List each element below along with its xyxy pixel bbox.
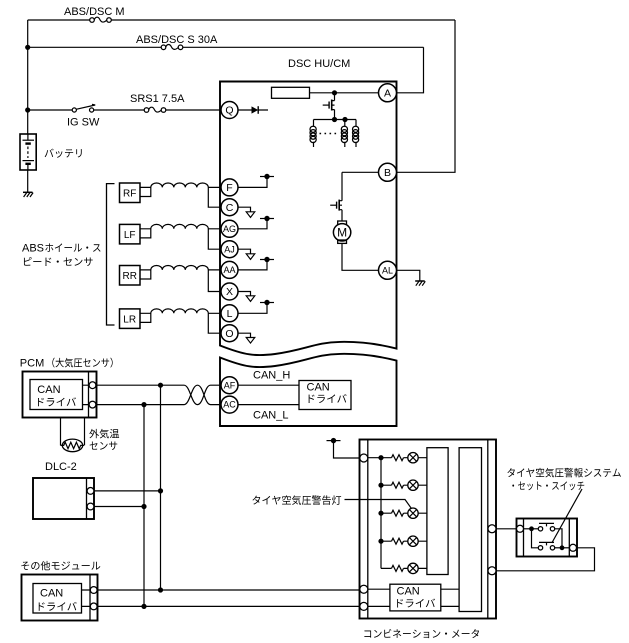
svg-text:O: O bbox=[225, 328, 233, 340]
node junction row 4 bbox=[378, 539, 383, 544]
wire upper switch output drop bbox=[555, 529, 562, 548]
diagram PCM module box bbox=[23, 372, 97, 418]
label ・セット・スイッチ bbox=[512, 481, 584, 490]
wire meter connector inner edges bbox=[368, 440, 488, 619]
diagram set switch box bbox=[517, 519, 578, 557]
node junction CAN_L bus tap bbox=[141, 402, 146, 407]
svg-text:LF: LF bbox=[124, 230, 136, 241]
pin B bbox=[379, 163, 397, 181]
wire battery positive rail (left vertical) bbox=[27, 20, 29, 134]
wire RF twisted pair to pins F/C bbox=[140, 183, 221, 207]
svg-text:IG SW: IG SW bbox=[67, 117, 100, 129]
wire switch return loop to meter bbox=[496, 548, 595, 571]
wire AL to ground bbox=[397, 270, 420, 281]
diagram other-module box bbox=[22, 575, 98, 621]
wire module connector inner edge bbox=[89, 575, 91, 621]
wire O to shield ground bbox=[238, 333, 251, 337]
svg-text:CAN: CAN bbox=[40, 588, 63, 600]
svg-text:AG: AG bbox=[223, 224, 236, 234]
node at FET drain bbox=[332, 90, 337, 95]
diode D1 bbox=[238, 106, 268, 114]
diagram meter inner block 2 bbox=[459, 448, 481, 612]
sensor RF wheel speed sensor bbox=[120, 183, 141, 203]
wire C to shield ground bbox=[238, 207, 251, 212]
node solenoid left bbox=[332, 117, 337, 122]
wire AF to CAN driver bbox=[238, 384, 299, 386]
sensor LF wheel speed sensor bbox=[120, 224, 141, 244]
ground O (arrow) bbox=[246, 338, 255, 344]
diagram meter inner block 1 bbox=[427, 448, 448, 575]
resistor lamp row 1 bbox=[392, 455, 404, 461]
pin C bbox=[221, 199, 238, 216]
wire lamp row 1 bbox=[368, 457, 427, 459]
inductor solenoid valve L2 bbox=[344, 120, 346, 148]
svg-text:DSC HU/CM: DSC HU/CM bbox=[288, 58, 350, 70]
wire CAN_H to combination meter bbox=[97, 589, 360, 591]
fuse ABS/DSC S 30A bbox=[161, 45, 183, 50]
pin X bbox=[221, 283, 238, 300]
wire lamp row 3 bbox=[381, 512, 427, 514]
switch IG SW bbox=[72, 104, 95, 112]
node L supply tap bbox=[260, 300, 274, 305]
wire to lower switch bbox=[532, 529, 539, 548]
svg-text:PCM: PCM bbox=[20, 358, 44, 370]
label タイヤ空気圧警告灯 bbox=[252, 495, 341, 505]
node meter terminal right upper bbox=[488, 525, 496, 533]
diagram module CAN driver box bbox=[33, 584, 82, 614]
op-amp: DSC HU/CM upper module box bbox=[220, 82, 397, 356]
bracket sensor group bbox=[107, 184, 115, 325]
wire switch connector inner edges bbox=[524, 519, 570, 557]
wire DLC-2 to CAN_H bus bbox=[94, 490, 161, 492]
wire meter lamp bus bbox=[380, 458, 382, 569]
node meter terminal CAN_L bbox=[360, 602, 368, 610]
ground C (arrow) bbox=[246, 212, 255, 218]
label バッテリ bbox=[45, 149, 82, 158]
pin Q bbox=[221, 102, 238, 119]
node solenoid right bbox=[342, 117, 347, 122]
label コンビネーション・メータ bbox=[364, 629, 479, 638]
svg-text:C: C bbox=[226, 202, 234, 214]
pin F bbox=[221, 179, 238, 196]
resistor lamp row 2 bbox=[392, 482, 404, 488]
diagram PCM CAN driver box bbox=[30, 380, 83, 410]
svg-text:CAN: CAN bbox=[307, 382, 330, 394]
diagram DSC lower module box (CAN section) bbox=[220, 354, 397, 426]
node meter terminal CAN_H bbox=[360, 585, 368, 593]
wire CAN_H bus vertical bbox=[160, 385, 162, 590]
wire solenoid header bbox=[314, 119, 357, 121]
svg-text:RR: RR bbox=[122, 271, 136, 282]
wire DLC-2 connector inner edge bbox=[86, 478, 88, 519]
svg-text:AJ: AJ bbox=[224, 244, 235, 254]
node junction row 2 bbox=[378, 483, 383, 488]
svg-text:LR: LR bbox=[123, 315, 136, 326]
wire PCM connector inner edge bbox=[88, 372, 90, 418]
svg-text:B: B bbox=[384, 167, 391, 179]
svg-text:L: L bbox=[227, 308, 233, 320]
resistor (pump relay coil) bbox=[272, 87, 310, 98]
motor M (ABS pump) bbox=[333, 212, 378, 271]
svg-text:AC: AC bbox=[223, 400, 236, 410]
pin AA bbox=[221, 261, 238, 278]
wire ABS/DSC S feed (second horizontal) bbox=[28, 46, 424, 48]
lamp row 2 bbox=[408, 480, 418, 490]
pin AJ bbox=[221, 241, 238, 258]
wire resistor to node bbox=[310, 92, 380, 94]
wire CAN_L to combination meter bbox=[97, 605, 360, 607]
wire pin B to motor FET bbox=[342, 171, 379, 173]
wire lower switch output bbox=[555, 547, 570, 549]
pin L bbox=[221, 305, 238, 322]
wire meter CAN_L internal bbox=[368, 605, 459, 607]
wire AJ to shield ground bbox=[238, 249, 251, 254]
node DLC-2 terminal lower bbox=[87, 503, 94, 510]
node AG supply tap bbox=[260, 216, 274, 221]
pin A bbox=[379, 84, 397, 102]
ground battery bbox=[23, 192, 33, 197]
wire CAN_L PCM to DSC (twisted) bbox=[96, 404, 221, 406]
node PCM terminal CAN_L bbox=[89, 401, 96, 408]
node junction row 1 bbox=[378, 455, 383, 460]
wire meter CAN_H internal bbox=[368, 588, 459, 590]
wire L to supply bbox=[238, 303, 267, 314]
wire CAN driver stubs to terminals bbox=[83, 385, 90, 404]
transistor Q1 (valve driver FET) bbox=[323, 93, 335, 120]
wire lamp row 5 bbox=[381, 567, 427, 569]
node PCM terminal CAN_H bbox=[89, 382, 96, 389]
wire LF twisted pair to pins AG/AJ bbox=[140, 224, 221, 249]
node junction battery rail / IG line bbox=[25, 107, 30, 112]
node meter terminal supply bbox=[360, 454, 368, 462]
wire CAN_L bus vertical bbox=[143, 405, 145, 607]
ground AL bbox=[415, 281, 425, 286]
wire twist crossover A bbox=[184, 385, 211, 404]
fuse SRS1 7.5A bbox=[144, 107, 166, 112]
lamp row 4 bbox=[408, 536, 418, 546]
svg-text:AF: AF bbox=[224, 380, 236, 390]
svg-text:RF: RF bbox=[123, 189, 136, 200]
wire switch input bbox=[524, 528, 539, 530]
wire AC to CAN driver bbox=[238, 404, 299, 406]
wire lamp row 2 bbox=[381, 484, 427, 486]
svg-text:CAN: CAN bbox=[397, 586, 420, 598]
resistor 外気温センサ thermistor bbox=[61, 439, 85, 452]
label 外気温センサ bbox=[89, 429, 119, 439]
node F supply tap bbox=[260, 174, 274, 179]
wire DLC-2 to CAN_L bus bbox=[94, 506, 144, 508]
sensor LR wheel speed sensor bbox=[120, 309, 141, 329]
diagram meter CAN driver box bbox=[390, 584, 441, 611]
node DLC-2 terminal upper bbox=[87, 488, 94, 495]
node junction CAN_H bus tap bbox=[158, 383, 163, 388]
wire AA to supply bbox=[238, 260, 267, 270]
lamp row 5 bbox=[408, 563, 418, 573]
node junction switch input bbox=[529, 526, 534, 531]
svg-text:F: F bbox=[226, 182, 232, 194]
wire driver stubs bbox=[82, 590, 91, 606]
svg-text:CAN_L: CAN_L bbox=[253, 410, 288, 422]
pin AL bbox=[379, 261, 397, 279]
svg-text:A: A bbox=[384, 87, 391, 99]
wire twist crossover B bbox=[184, 385, 211, 404]
diagram DSC CAN driver box bbox=[299, 381, 351, 410]
lamp row 3 (タイヤ空気圧警告灯) bbox=[408, 508, 418, 518]
pin AF bbox=[221, 377, 238, 394]
wire X to shield ground bbox=[238, 292, 251, 296]
svg-text:ABS/DSC M: ABS/DSC M bbox=[64, 6, 125, 18]
ground X (arrow) bbox=[246, 296, 255, 302]
wire supply to meter bbox=[334, 441, 360, 458]
node meter terminal right lower bbox=[488, 567, 496, 575]
node junction DLC CAN_L bbox=[141, 504, 146, 509]
node switch terminal left bbox=[517, 525, 524, 532]
node switch terminal right bbox=[570, 544, 577, 551]
wire PCM to ambient temp sensor bbox=[61, 418, 85, 446]
wire LR twisted pair to pins L/O bbox=[140, 309, 221, 333]
label タイヤ空気圧警報システム bbox=[507, 468, 620, 478]
svg-text:Q: Q bbox=[225, 105, 233, 117]
switch SW2 (lower push contact) bbox=[538, 542, 554, 550]
pin AG bbox=[221, 220, 238, 237]
transistor Q2 (pump motor FET) bbox=[330, 172, 342, 211]
ground AJ (arrow) bbox=[246, 254, 255, 260]
wire RR twisted pair to pins AA/X bbox=[140, 265, 221, 291]
resistor lamp row 4 bbox=[392, 538, 404, 544]
svg-text:CAN: CAN bbox=[37, 384, 60, 396]
node module terminal CAN_H bbox=[90, 587, 97, 594]
svg-text:AA: AA bbox=[223, 265, 235, 275]
svg-text:SRS1 7.5A: SRS1 7.5A bbox=[130, 93, 185, 105]
wire CAN_H PCM to DSC (twisted) bbox=[96, 384, 221, 386]
wire drop to pin A bbox=[397, 47, 424, 93]
wire dotted continuation between valves bbox=[320, 133, 340, 135]
wire set-switch pointer bbox=[552, 489, 582, 543]
svg-text:AL: AL bbox=[382, 266, 393, 276]
wire lamp row 4 bbox=[381, 540, 427, 542]
node junction bus/meter CAN_H bbox=[158, 587, 163, 592]
inductor solenoid valve L1 bbox=[313, 120, 315, 148]
pin AC bbox=[221, 396, 238, 413]
label その他モジュール bbox=[21, 561, 100, 570]
resistor lamp row 3 bbox=[392, 510, 404, 516]
node junction bus/meter CAN_L bbox=[141, 604, 146, 609]
node meter supply tap bbox=[327, 438, 341, 443]
wire battery to ground bbox=[27, 170, 29, 192]
lamp row 1 (warning bulb) bbox=[408, 453, 418, 463]
node junction row 3 bbox=[378, 511, 383, 516]
fuse ABS/DSC M bbox=[90, 17, 112, 22]
node junction DLC CAN_H bbox=[158, 488, 163, 493]
diagram combination meter box bbox=[360, 440, 497, 619]
svg-text:ABS/DSC S 30A: ABS/DSC S 30A bbox=[136, 34, 218, 46]
svg-text:X: X bbox=[226, 286, 233, 298]
node junction at battery rail / S feed bbox=[25, 45, 30, 50]
wire warning lamp pointer bbox=[345, 500, 412, 509]
pin O bbox=[221, 325, 238, 342]
node AA supply tap bbox=[260, 257, 274, 262]
wire ABS/DSC M feed (top horizontal) bbox=[28, 19, 455, 21]
node junction switch outputs bbox=[560, 545, 565, 550]
svg-text:ABS: ABS bbox=[22, 243, 44, 255]
resistor lamp row 5 bbox=[392, 565, 404, 571]
svg-text:DLC-2: DLC-2 bbox=[45, 461, 77, 473]
wire AG to supply bbox=[238, 219, 267, 229]
switch SW1 (upper push contact) bbox=[538, 523, 554, 531]
wire meter to set switch bbox=[496, 528, 517, 530]
inductor solenoid valve L3 bbox=[355, 120, 357, 148]
wire F to supply bbox=[238, 177, 267, 188]
svg-text:M: M bbox=[337, 226, 347, 240]
sensor RR wheel speed sensor bbox=[120, 266, 141, 286]
svg-text:CAN_H: CAN_H bbox=[253, 370, 290, 382]
wire right drop to pin B bbox=[397, 20, 456, 172]
diagram DLC-2 connector box bbox=[33, 478, 94, 519]
battery バッテリ bbox=[20, 134, 36, 170]
node module terminal CAN_L bbox=[90, 603, 97, 610]
wire IG SW / SRS1 line to pin Q bbox=[28, 109, 222, 111]
